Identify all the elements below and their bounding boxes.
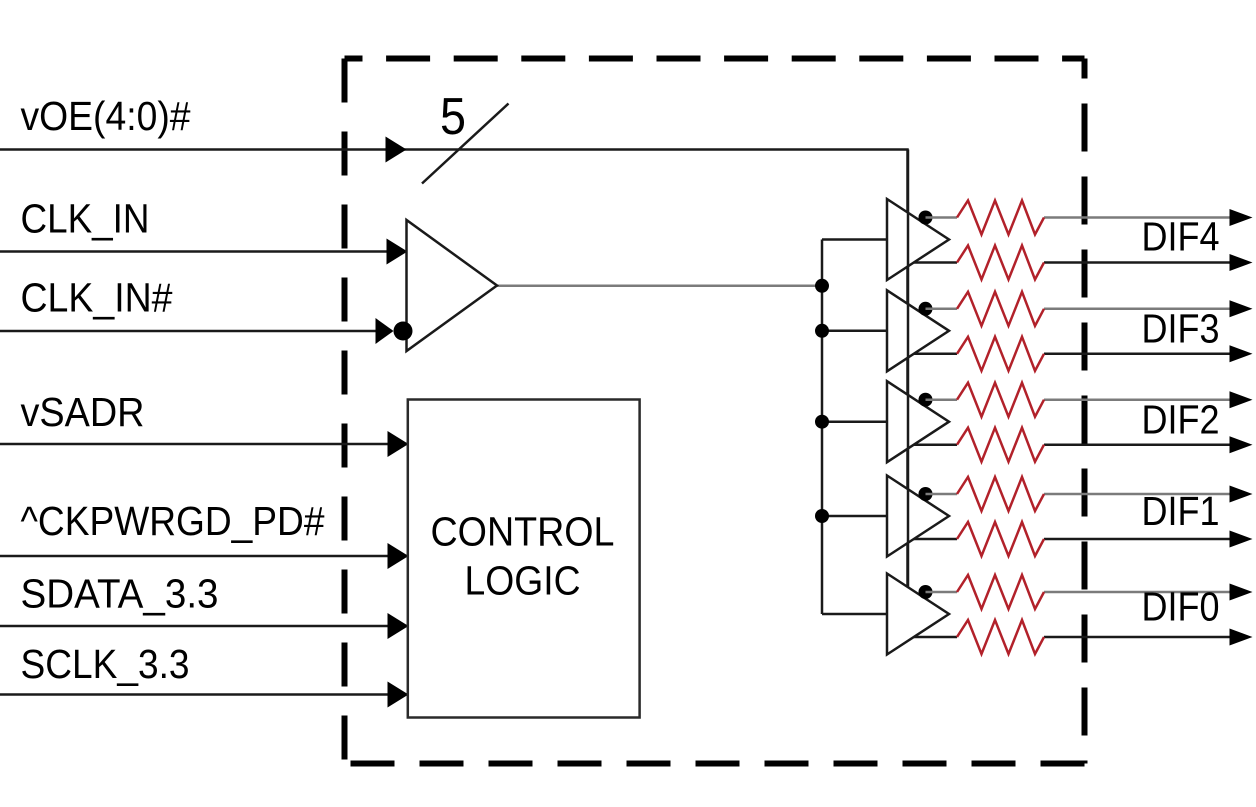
resistor R10 DIF0 comp — [957, 620, 1044, 654]
wire DIF0 comp out — [914, 636, 1231, 639]
wire DIF1 comp out — [914, 538, 1231, 541]
wire DIF1 true out — [926, 493, 1232, 496]
resistor R7 DIF1 true — [957, 477, 1044, 511]
wire DIF4 true out — [926, 216, 1232, 219]
node junction DIF3 — [815, 324, 829, 338]
resistor R6 DIF2 comp — [957, 428, 1044, 462]
wire stub to DIF0 buffer — [822, 613, 887, 616]
arrow ^CKPWRGD_PD# — [388, 543, 409, 569]
svg-text:DIF4: DIF4 — [1142, 214, 1220, 260]
wire DIF2 true out — [926, 398, 1232, 401]
resistor R3 DIF3 true — [957, 292, 1044, 326]
arrow DIF4 comp — [1230, 254, 1253, 271]
wire vOE(4:0)# input — [0, 150, 908, 588]
control logic block — [408, 400, 640, 718]
svg-text:vOE(4:0)#: vOE(4:0)# — [21, 93, 191, 139]
arrow DIF1 true — [1230, 486, 1253, 503]
input buffer U1 — [407, 220, 498, 351]
node tap DIF1 — [919, 487, 933, 501]
node tap DIF2 — [919, 393, 933, 407]
svg-text:^CKPWRGD_PD#: ^CKPWRGD_PD# — [21, 498, 325, 544]
wire clock distribution vertical — [821, 240, 824, 615]
node tap DIF3 — [919, 302, 933, 316]
chip boundary dashed box top — [345, 56, 1085, 62]
arrow SDATA_3.3 — [388, 613, 409, 639]
node tap DIF4 — [919, 211, 933, 225]
arrow DIF0 comp — [1230, 629, 1253, 646]
arrow DIF3 comp — [1230, 345, 1253, 362]
node tap DIF0 — [919, 585, 933, 599]
output buffer U6 DIF0 — [887, 574, 949, 655]
wire CLK_IN# input — [0, 330, 392, 333]
wire vOE enable bus vertical — [907, 150, 910, 588]
node junction DIF1 — [815, 509, 829, 523]
wire DIF0 true out — [926, 591, 1232, 594]
resistor R1 DIF4 true — [957, 201, 1044, 235]
node junction clock to DIF4/DIF3 — [815, 279, 829, 293]
output buffer U3 DIF3 — [887, 290, 949, 371]
svg-text:SCLK_3.3: SCLK_3.3 — [21, 641, 190, 687]
wire CLK_IN input — [0, 250, 406, 253]
wire DIF4 comp out — [914, 261, 1231, 264]
svg-text:LOGIC: LOGIC — [465, 558, 581, 604]
wire stub to DIF1 buffer — [822, 515, 887, 518]
arrow DIF0 true — [1230, 584, 1253, 601]
svg-text:CLK_IN#: CLK_IN# — [21, 275, 173, 321]
arrow DIF4 true — [1230, 209, 1253, 226]
arrow DIF2 comp — [1230, 436, 1253, 453]
arrow CLK_IN — [387, 239, 408, 265]
arrow SCLK_3.3 — [388, 682, 409, 708]
resistor R2 DIF4 comp — [957, 246, 1044, 280]
output buffer U4 DIF2 — [887, 381, 949, 462]
chip boundary dashed box right — [1082, 59, 1088, 764]
wire input buffer output to distribution node — [497, 285, 822, 288]
svg-text:DIF2: DIF2 — [1142, 397, 1220, 443]
arrow DIF1 comp — [1230, 531, 1253, 548]
wire DIF3 true out — [926, 308, 1232, 311]
output buffer U5 DIF1 — [887, 476, 949, 557]
output buffer U2 DIF4 — [887, 199, 949, 280]
svg-text:CLK_IN: CLK_IN — [21, 196, 150, 242]
chip boundary dashed box bottom — [345, 761, 1085, 767]
bus slash mark — [422, 104, 509, 184]
wire stub to DIF4 buffer — [822, 238, 887, 241]
wire ^CKPWRGD_PD# input — [0, 555, 407, 558]
svg-text:vSADR: vSADR — [21, 389, 145, 435]
wire SCLK_3.3 input — [0, 693, 407, 696]
svg-text:DIF3: DIF3 — [1142, 306, 1220, 352]
node junction DIF2 — [815, 415, 829, 429]
resistor R4 DIF3 comp — [957, 337, 1044, 371]
svg-text:SDATA_3.3: SDATA_3.3 — [21, 571, 219, 617]
wire DIF3 comp out — [914, 353, 1231, 356]
wire stub to DIF3 buffer — [822, 330, 887, 333]
arrow vSADR — [388, 431, 409, 457]
resistor R9 DIF0 true — [957, 575, 1044, 609]
svg-text:5: 5 — [440, 88, 466, 146]
svg-text:DIF0: DIF0 — [1142, 583, 1220, 629]
arrow CLK_IN# — [376, 318, 394, 344]
wire SDATA_3.3 input — [0, 625, 407, 628]
arrow DIF2 true — [1230, 391, 1253, 408]
arrow vOE into chip — [386, 137, 407, 163]
resistor R5 DIF2 true — [957, 383, 1044, 417]
resistor R8 DIF1 comp — [957, 522, 1044, 556]
wire vSADR input — [0, 443, 407, 446]
arrow DIF3 true — [1230, 300, 1253, 317]
wire stub to DIF2 buffer — [822, 420, 887, 423]
wire DIF2 comp out — [914, 443, 1231, 446]
svg-text:DIF1: DIF1 — [1142, 488, 1220, 534]
chip boundary dashed box left — [342, 59, 348, 764]
inversion bubble on CLK_IN# — [394, 322, 413, 341]
svg-text:CONTROL: CONTROL — [431, 509, 615, 555]
